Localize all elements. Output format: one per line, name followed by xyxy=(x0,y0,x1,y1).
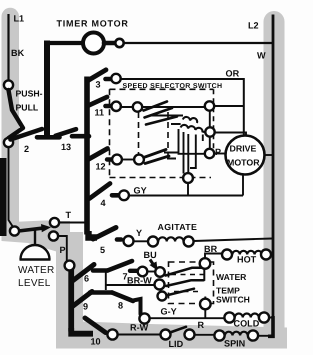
svg-text:HOT: HOT xyxy=(237,255,257,265)
push-pull switch blade xyxy=(9,90,24,138)
selector step wires row 12 xyxy=(164,153,179,159)
lid switch right terminal xyxy=(185,330,195,340)
agitate solenoid coil xyxy=(158,237,183,241)
lid switch left terminal xyxy=(161,330,171,340)
svg-text:P: P xyxy=(215,147,221,157)
wire top line left segment xyxy=(44,41,84,45)
temp switch terminal BR-W xyxy=(155,280,165,290)
svg-text:GY: GY xyxy=(134,186,147,196)
contact 12 terminal xyxy=(112,155,122,165)
svg-text:Y: Y xyxy=(136,228,142,238)
temp switch terminal BU xyxy=(155,267,165,277)
timer motor output stub xyxy=(104,41,115,46)
wire spin to L2 corner xyxy=(258,335,270,337)
svg-text:3: 3 xyxy=(96,80,101,90)
wire P to bus B xyxy=(58,236,67,261)
contact 2 fixed bar xyxy=(37,135,60,140)
svg-text:8: 8 xyxy=(118,301,123,311)
cold coil left terminal xyxy=(224,312,234,322)
wire GY contact 4 to drive motor xyxy=(129,195,243,197)
wire BR-W to temp switch xyxy=(106,284,155,286)
speed selector box bottom dashed xyxy=(110,177,212,179)
temp switch bottom right terminal xyxy=(200,299,211,310)
svg-text:SPIN: SPIN xyxy=(224,339,245,349)
svg-text:OR: OR xyxy=(226,68,240,78)
svg-text:T: T xyxy=(66,210,72,220)
wire L2 bus xyxy=(272,15,275,336)
wire OR from contact 3 to drive motor xyxy=(121,79,244,135)
water level T terminal xyxy=(50,218,59,227)
wire lid to spin coil xyxy=(195,334,215,336)
wire riser to timer motor line xyxy=(44,41,50,140)
svg-text:TIMER MOTOR: TIMER MOTOR xyxy=(57,19,129,29)
svg-text:P: P xyxy=(60,245,66,255)
winding leg 1 to P terminal xyxy=(179,129,205,154)
contact 8 blade xyxy=(112,293,133,302)
svg-text:12: 12 xyxy=(96,162,106,172)
agitate coil left terminal xyxy=(148,237,158,247)
svg-text:13: 13 xyxy=(61,142,71,152)
svg-text:MOTOR: MOTOR xyxy=(227,158,260,168)
svg-text:COLD: COLD xyxy=(234,319,260,329)
contact 6 fixed bar xyxy=(93,268,108,273)
svg-text:AGITATE: AGITATE xyxy=(158,222,198,232)
contact 13 blade xyxy=(56,129,77,136)
node push-pull bottom terminal xyxy=(4,138,13,147)
lid switch blade xyxy=(170,327,186,333)
wire mid terminal to motor riser xyxy=(215,133,246,136)
wire between right terminals lower xyxy=(209,137,211,149)
wire from push-pull down left side xyxy=(9,147,14,227)
contact 9 fixed bar xyxy=(90,290,112,295)
selector dashed link line xyxy=(167,112,169,156)
water level dome stem xyxy=(34,230,36,246)
winding leg 4 xyxy=(190,135,196,169)
svg-text:SPEED SELECTOR SWITCH: SPEED SELECTOR SWITCH xyxy=(123,83,223,90)
hot coil right terminal xyxy=(261,250,271,260)
svg-text:G-Y: G-Y xyxy=(161,307,177,317)
BU arrow xyxy=(150,260,154,266)
contact 11 terminal xyxy=(112,102,121,111)
temp switch inner vertical xyxy=(203,269,205,281)
contact 10 bus corner xyxy=(71,328,93,334)
wire G-Y to cold coil xyxy=(150,317,224,319)
contact 8 elbow to G-Y xyxy=(133,299,141,314)
contact 10 blade xyxy=(85,318,106,333)
svg-text:R: R xyxy=(198,320,205,330)
selector right terminal mid xyxy=(205,127,214,136)
contact 7 terminal xyxy=(138,267,148,277)
svg-text:9: 9 xyxy=(83,302,88,312)
contact 3 terminal xyxy=(111,74,120,83)
wire top line to L2 xyxy=(104,42,272,44)
svg-text:BR: BR xyxy=(204,244,218,254)
selector dashed vertical xyxy=(138,112,140,155)
water level selector arrow xyxy=(19,228,43,231)
svg-text:11: 11 xyxy=(95,108,105,118)
selector common node xyxy=(183,173,193,183)
temp switch bottom circle stub up xyxy=(204,297,206,300)
timer motor M1 xyxy=(83,33,104,54)
contact 7 stub xyxy=(130,269,137,273)
svg-text:LID: LID xyxy=(169,339,184,349)
wire hot coil to L2 xyxy=(271,253,273,256)
wire BR temp switch to hot coil xyxy=(205,254,222,259)
speed selector box top dashed xyxy=(110,88,214,90)
spin coil left terminal xyxy=(214,330,224,340)
bus B rinse spin bank xyxy=(68,270,74,332)
wire L1 lead BK xyxy=(7,14,9,81)
svg-text:2: 2 xyxy=(24,144,29,154)
temp switch blade lower xyxy=(168,289,194,295)
water level dome xyxy=(20,245,51,260)
wire between right terminals xyxy=(209,111,211,128)
spin coil right terminal xyxy=(248,330,258,340)
svg-text:WATER: WATER xyxy=(18,265,55,276)
highlighted path L2 band xyxy=(264,11,285,342)
highlighted path bottom band xyxy=(56,321,287,349)
winding leg 5 xyxy=(202,135,204,142)
bus A timer switch bank xyxy=(84,77,90,235)
selector right terminal P xyxy=(205,149,214,158)
drive motor M2 xyxy=(226,136,265,175)
winding leg 3 xyxy=(187,134,189,173)
temp switch blade BU xyxy=(166,268,201,276)
wire T to bus A xyxy=(59,222,86,224)
svg-text:W: W xyxy=(257,51,266,61)
contact 9 blade xyxy=(73,292,92,307)
selector blades row 11 xyxy=(144,102,178,125)
contact 12 blade xyxy=(89,149,108,160)
selector terminal row 12 xyxy=(134,155,144,165)
cold coil right terminal xyxy=(259,312,269,322)
contact 5 blade xyxy=(93,228,116,240)
speed selector box right dashed xyxy=(213,89,215,160)
water level P terminal xyxy=(49,231,58,240)
selector terminal row 11 xyxy=(133,102,142,111)
wire P terminal to drive motor xyxy=(214,153,226,155)
G-Y node terminal xyxy=(139,313,149,323)
contact 3 stub xyxy=(106,77,112,82)
wire L2 bottom corner xyxy=(268,316,273,336)
contact 4 stub xyxy=(112,193,118,198)
wire cold coil to L2 xyxy=(269,317,273,319)
timer motor terminal circle xyxy=(115,39,123,47)
drive motor winding upper xyxy=(183,117,197,123)
temp switch inner dashes xyxy=(171,275,204,292)
spin solenoid coil xyxy=(225,332,248,336)
contact 5 bus corner xyxy=(89,231,98,238)
drive motor winding lower xyxy=(181,125,206,132)
wire drive motor bottom lead xyxy=(242,175,244,196)
contact 4 blade xyxy=(90,184,111,199)
svg-text:DRIVE: DRIVE xyxy=(230,144,257,154)
contact 13 fixed bar to bus xyxy=(72,134,89,139)
svg-text:PULL: PULL xyxy=(16,103,39,113)
contact 7 blade xyxy=(108,261,133,271)
cold solenoid coil xyxy=(235,314,259,318)
node push-pull top terminal xyxy=(4,80,13,89)
contact 10 terminal xyxy=(107,329,117,339)
selector step wires row 11 xyxy=(151,116,183,125)
temp switch bottom stub xyxy=(204,309,206,318)
svg-text:L1: L1 xyxy=(14,14,25,24)
svg-text:BK: BK xyxy=(11,48,25,58)
water level arrowhead xyxy=(41,224,51,232)
selector blades row 12 xyxy=(145,150,169,164)
svg-text:WATER: WATER xyxy=(216,272,247,282)
wire Y to agitate coil xyxy=(134,240,149,242)
temp switch terminal lower xyxy=(158,292,167,301)
BU arrowhead xyxy=(150,262,158,271)
hot coil left terminal xyxy=(222,250,232,260)
agitate coil right terminal xyxy=(184,237,194,247)
svg-text:L2: L2 xyxy=(248,21,259,31)
svg-text:PUSH-: PUSH- xyxy=(16,89,43,99)
contact 4 terminal xyxy=(119,190,129,200)
contact 12 stub xyxy=(107,157,112,161)
water level common node xyxy=(10,226,19,235)
contact 2 blade xyxy=(11,129,43,140)
svg-text:LEVEL: LEVEL xyxy=(18,278,51,289)
wire row 12 xyxy=(122,159,134,161)
contact 6 blade xyxy=(73,265,94,281)
wire R-W to lid switch xyxy=(118,334,161,336)
highlighted path swath to water level switch xyxy=(2,221,59,253)
riser bar6 to bar9 xyxy=(105,272,107,290)
wire agitate to L2 xyxy=(194,239,272,242)
water temp switch dashed box xyxy=(169,262,214,304)
temp switch top right terminal xyxy=(200,258,211,269)
hot solenoid coil xyxy=(232,251,262,255)
speed selector box left dashed xyxy=(109,89,111,177)
svg-text:BR-W: BR-W xyxy=(127,276,152,286)
contact 5 terminal xyxy=(124,236,134,246)
svg-text:R-W: R-W xyxy=(130,323,149,333)
svg-text:6: 6 xyxy=(84,274,89,284)
winding leg 2 xyxy=(183,132,185,174)
node bus B top xyxy=(65,261,75,271)
contact 11 blade xyxy=(89,97,108,106)
wire 7 to temp switch xyxy=(147,271,155,273)
highlighted current path L1 band xyxy=(2,8,20,240)
temp switch blade BR-W xyxy=(166,280,204,286)
contact 3 blade xyxy=(88,70,106,81)
scan artifact left edge bar xyxy=(0,158,7,236)
contact 5 stub xyxy=(117,237,121,242)
wire right terminal top to motor riser xyxy=(214,105,244,107)
svg-text:10: 10 xyxy=(91,337,101,347)
selector right terminal top xyxy=(205,101,214,110)
contact 11 stub xyxy=(106,104,113,109)
svg-text:4: 4 xyxy=(101,198,107,208)
wire drive motor to L2 xyxy=(265,154,273,156)
svg-text:5: 5 xyxy=(100,245,105,255)
svg-text:SWITCH: SWITCH xyxy=(216,295,250,305)
highlighted path pressure-switch vertical band xyxy=(56,221,83,331)
svg-text:BU: BU xyxy=(144,250,158,260)
wire selector node down to GY wire xyxy=(187,183,189,196)
wire row 11 xyxy=(120,106,206,108)
